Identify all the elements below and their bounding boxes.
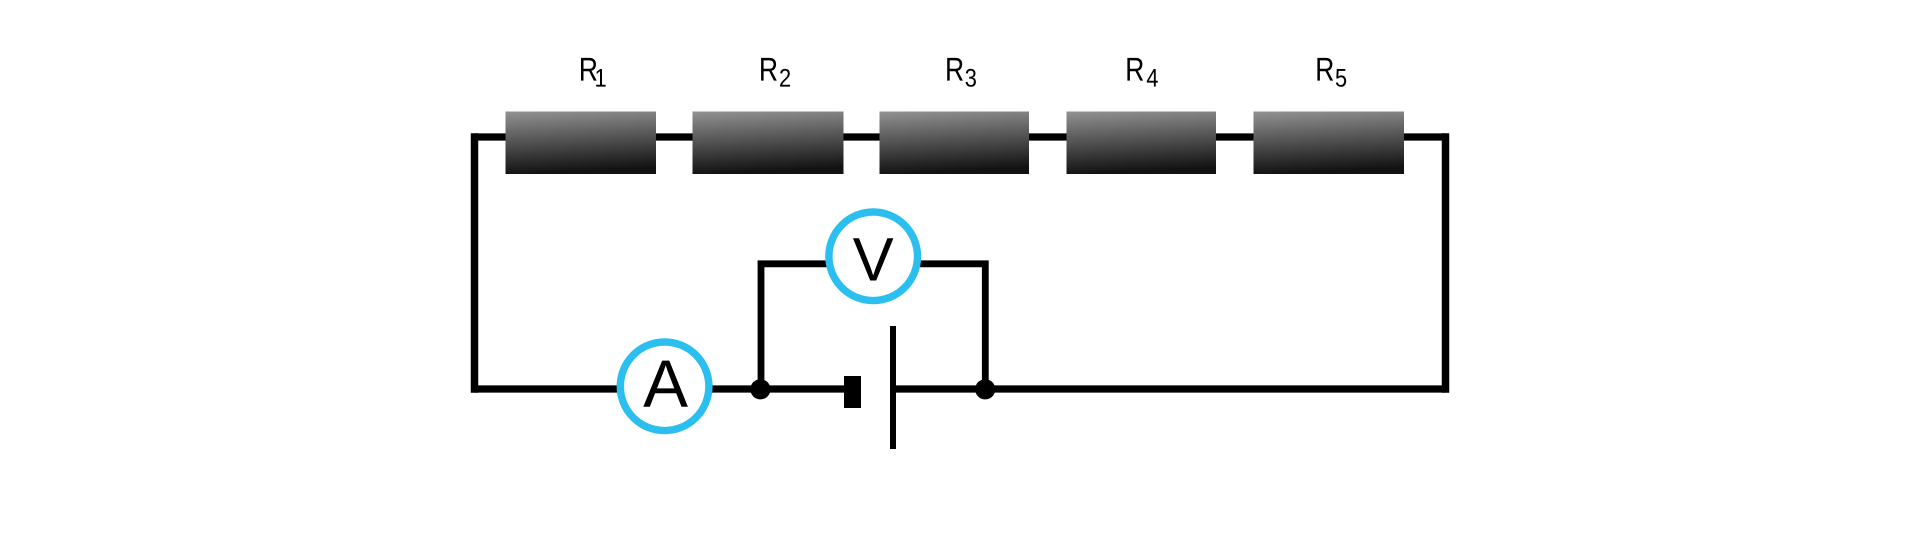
- resistor R4: [1067, 112, 1217, 175]
- battery short plate (negative): [844, 376, 861, 408]
- resistor R3: [880, 112, 1030, 175]
- label R3: [947, 58, 976, 87]
- voltmeter V: [829, 212, 918, 301]
- battery long plate (positive): [890, 326, 896, 449]
- label R5: [1317, 58, 1346, 87]
- label R2: [761, 58, 790, 87]
- ammeter A: [620, 342, 709, 431]
- wire top bus: [475, 133, 1446, 140]
- node junction left: [750, 379, 770, 399]
- resistor R2: [693, 112, 844, 175]
- wire voltmeter branch: [761, 264, 985, 389]
- wire left vertical: [471, 137, 479, 389]
- label R4: [1127, 58, 1157, 87]
- label R1: [581, 58, 606, 87]
- wire right vertical: [1442, 137, 1450, 389]
- wire bottom right: [892, 385, 1446, 392]
- resistor R1: [506, 112, 657, 175]
- resistor R5: [1254, 112, 1405, 175]
- node junction right: [975, 379, 995, 399]
- wire bottom left: [475, 385, 845, 392]
